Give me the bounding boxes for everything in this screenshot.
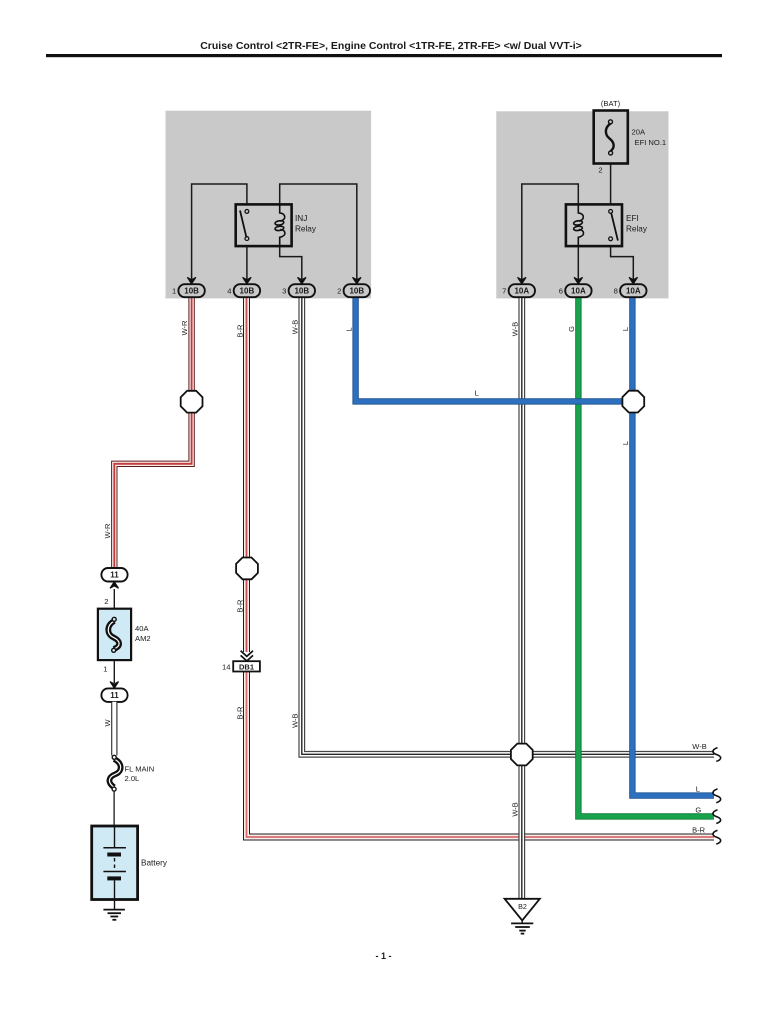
svg-text:AM2: AM2 — [135, 634, 151, 643]
svg-text:1: 1 — [172, 287, 176, 296]
svg-text:L: L — [345, 327, 354, 331]
svg-text:2: 2 — [598, 166, 602, 175]
svg-text:B-R: B-R — [236, 599, 245, 613]
svg-text:14: 14 — [222, 662, 230, 671]
svg-text:DB1: DB1 — [239, 662, 254, 671]
svg-text:B2: B2 — [518, 902, 527, 911]
svg-text:L: L — [621, 441, 630, 445]
svg-text:FL MAIN: FL MAIN — [125, 764, 155, 773]
svg-text:(BAT): (BAT) — [601, 99, 621, 108]
svg-text:B-R: B-R — [692, 826, 706, 835]
svg-text:2.0L: 2.0L — [125, 774, 140, 783]
svg-text:10B: 10B — [240, 287, 255, 296]
svg-text:10A: 10A — [626, 287, 641, 296]
svg-text:B-R: B-R — [236, 324, 245, 338]
svg-text:20A: 20A — [632, 128, 646, 137]
svg-text:L: L — [621, 327, 630, 331]
svg-text:10B: 10B — [349, 287, 364, 296]
svg-text:W-B: W-B — [290, 320, 299, 334]
svg-text:W-B: W-B — [692, 742, 706, 751]
svg-text:Battery: Battery — [141, 859, 168, 868]
svg-text:L: L — [696, 785, 700, 794]
svg-text:B-R: B-R — [236, 706, 245, 720]
svg-text:7: 7 — [502, 287, 506, 296]
svg-text:EFI NO.1: EFI NO.1 — [635, 138, 667, 147]
svg-text:10A: 10A — [514, 287, 529, 296]
svg-text:W-B: W-B — [511, 802, 520, 816]
svg-text:W-R: W-R — [180, 320, 189, 335]
svg-text:8: 8 — [614, 287, 618, 296]
svg-text:G: G — [695, 805, 701, 814]
svg-text:3: 3 — [282, 287, 286, 296]
svg-text:INJ: INJ — [295, 214, 307, 223]
svg-text:- 1 -: - 1 - — [375, 951, 391, 961]
svg-text:Relay: Relay — [295, 225, 317, 234]
svg-text:11: 11 — [110, 691, 119, 700]
svg-text:6: 6 — [559, 287, 563, 296]
svg-text:W-R: W-R — [103, 523, 112, 538]
svg-text:Cruise Control <2TR-FE>, Engin: Cruise Control <2TR-FE>, Engine Control … — [200, 40, 582, 52]
svg-text:2: 2 — [104, 597, 108, 606]
svg-text:W-B: W-B — [511, 322, 520, 336]
svg-text:Relay: Relay — [626, 225, 648, 234]
svg-text:L: L — [475, 389, 479, 398]
svg-text:W-B: W-B — [291, 713, 300, 727]
svg-text:1: 1 — [103, 664, 107, 673]
svg-text:G: G — [567, 326, 576, 332]
svg-text:11: 11 — [110, 571, 119, 580]
svg-text:40A: 40A — [135, 624, 149, 633]
svg-text:EFI: EFI — [626, 214, 639, 223]
svg-text:10B: 10B — [184, 287, 199, 296]
svg-text:10B: 10B — [294, 287, 309, 296]
svg-text:10A: 10A — [571, 287, 586, 296]
svg-text:2: 2 — [337, 287, 341, 296]
svg-text:W: W — [103, 718, 112, 726]
svg-text:4: 4 — [227, 287, 231, 296]
